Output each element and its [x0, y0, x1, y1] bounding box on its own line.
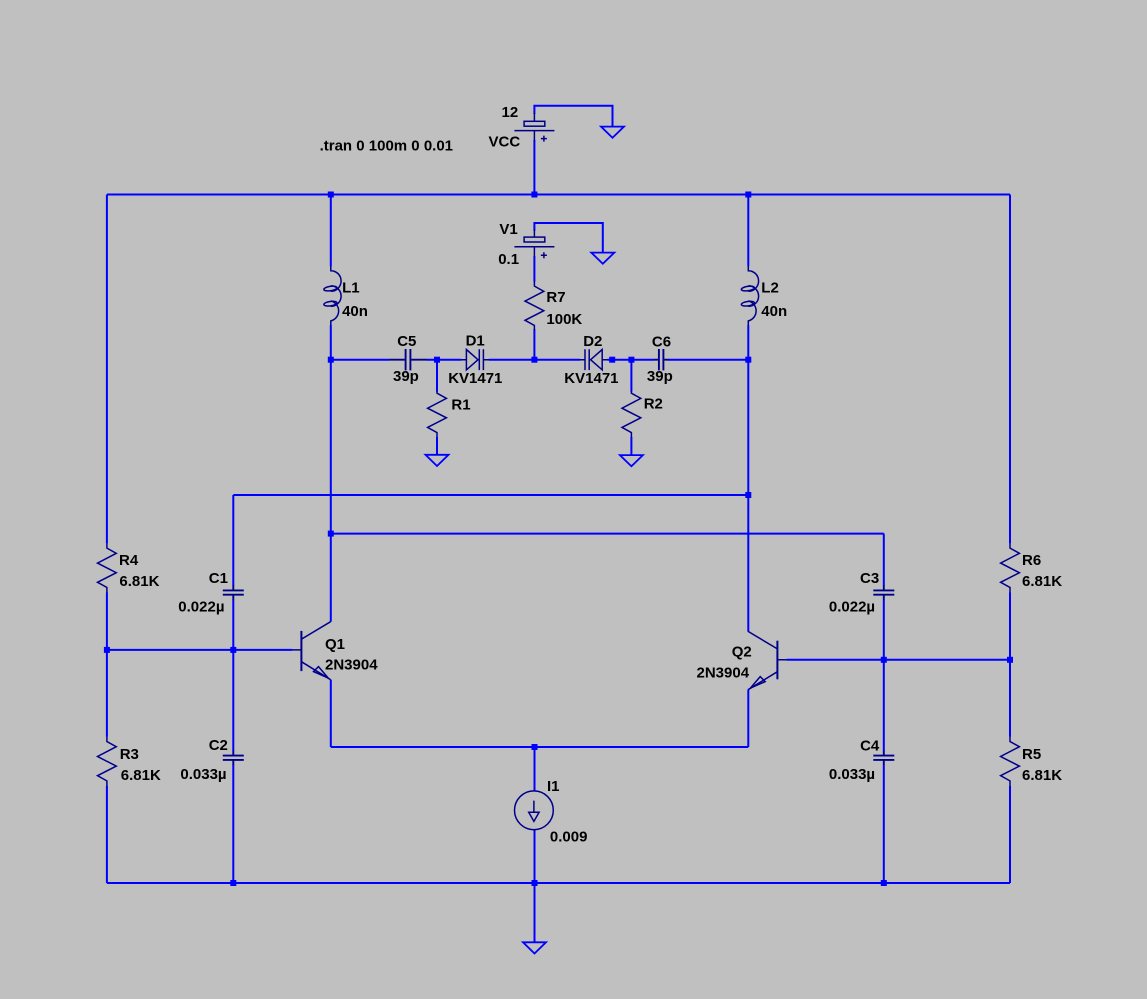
svg-text:C2: C2 [209, 737, 228, 754]
svg-text:6.81K: 6.81K [121, 767, 161, 784]
wire right rail upper (top rail to R6) [1009, 195, 1011, 544]
node C1 wire / Q2 collector [745, 492, 751, 498]
wire C1 cross-coupling horizontal to Q2 collector [233, 494, 748, 496]
inductor L1 body [324, 266, 342, 325]
wire L2 to Q2 collector vertical [747, 325, 749, 631]
resistor R3 body [98, 737, 117, 787]
wire C2 bottom to ground rail [232, 765, 234, 883]
wire Q1 base row from left rail [107, 649, 292, 651]
wire V1 to R7 [533, 256, 535, 282]
svg-text:C4: C4 [860, 738, 880, 755]
svg-text:39p: 39p [393, 368, 419, 385]
wire node L1 to C5 [331, 359, 390, 361]
wire C5 to R1 node to D1 [427, 359, 462, 361]
svg-text:40n: 40n [342, 303, 368, 320]
ground at V1 [591, 253, 614, 264]
svg-text:2N3904: 2N3904 [325, 656, 378, 673]
svg-text:R1: R1 [451, 396, 470, 413]
capacitor C4 body [873, 751, 894, 765]
svg-text:C3: C3 [860, 570, 879, 587]
wire C1 top vertical [232, 495, 234, 586]
wire R1 lower lead to ground [436, 437, 438, 455]
wire left rail upper (top rail to R4) [106, 195, 108, 544]
svg-text:.tran 0 100m 0 0.01: .tran 0 100m 0 0.01 [320, 138, 453, 155]
svg-text:40n: 40n [761, 303, 787, 320]
wire C3 top vertical [883, 534, 885, 586]
wire emitter coupling row [331, 746, 749, 748]
svg-text:VCC: VCC [489, 133, 521, 150]
wire R2 upper lead [630, 360, 632, 392]
ground under R2 [620, 455, 643, 466]
wire L2 branch vertical upper [747, 195, 749, 267]
svg-text:L1: L1 [342, 279, 360, 296]
wire VCC bottom lead to top rail [533, 140, 535, 195]
ground at VCC [601, 127, 624, 138]
resistor R1 body [428, 391, 447, 437]
diode D2 varactor body [580, 349, 608, 370]
wire D1 to R7 node to D2 [489, 359, 580, 361]
resistor R6 body [1001, 543, 1020, 593]
resistor R7 body [525, 281, 544, 330]
svg-text:L2: L2 [761, 279, 779, 296]
node emitter row / I1 [532, 744, 538, 750]
svg-text:0.022µ: 0.022µ [178, 599, 224, 616]
svg-text:0.033µ: 0.033µ [180, 766, 226, 783]
wire left rail middle (R4 to R3, node at Q1 base row) [106, 593, 108, 737]
wire C3 cross-coupling horizontal to Q1 collector [331, 533, 884, 535]
svg-text:I1: I1 [547, 778, 560, 795]
svg-text:Q2: Q2 [732, 644, 752, 661]
wire bottom ground stem [534, 883, 536, 942]
svg-text:R5: R5 [1022, 746, 1041, 763]
capacitor C1 body [223, 585, 244, 599]
node top rail / L1 [328, 192, 334, 198]
wire I1 top lead [534, 747, 536, 791]
wire right rail lower (R5 to bottom rail) [1009, 786, 1011, 883]
svg-text:KV1471: KV1471 [564, 370, 618, 387]
svg-text:C6: C6 [652, 334, 671, 351]
svg-text:0.009: 0.009 [550, 829, 588, 846]
svg-text:D1: D1 [466, 333, 485, 350]
capacitor C3 body [873, 585, 894, 599]
resistor R4 body [98, 543, 117, 593]
wire Q2 base row to right rail [787, 659, 1010, 661]
node bottom rail / C2 [230, 880, 236, 886]
svg-text:R3: R3 [120, 746, 139, 763]
node D2 cathode [609, 357, 615, 363]
node L1 / C5 row [328, 357, 334, 363]
svg-text:6.81K: 6.81K [119, 573, 159, 590]
node bottom rail / ground [532, 880, 538, 886]
node R7 / varactor row [531, 357, 537, 363]
svg-text:R4: R4 [119, 552, 139, 569]
svg-text:39p: 39p [647, 368, 673, 385]
wire L1 to Q1 collector vertical [330, 325, 332, 622]
svg-text:6.81K: 6.81K [1022, 573, 1062, 590]
wire I1 bottom lead [534, 830, 536, 883]
capacitor C2 body [223, 751, 244, 765]
svg-text:Q1: Q1 [325, 636, 345, 653]
inductor L2 body [741, 266, 759, 325]
node C6 / L2 [745, 357, 751, 363]
svg-text:D2: D2 [583, 333, 602, 350]
current source I1 body [515, 791, 554, 830]
node C1-C2 / Q1 base row [230, 647, 236, 653]
node top rail / VCC [531, 192, 537, 198]
wire top supply rail [107, 194, 1010, 196]
wire C1 to C2 vertical through Q1 base node [232, 600, 234, 751]
wire C6 to L2 node [668, 359, 748, 361]
svg-text:100K: 100K [546, 311, 582, 328]
node R2 / C6 [628, 357, 634, 363]
resistor R5 body [1001, 737, 1020, 787]
wire bottom ground rail [107, 882, 1010, 884]
svg-text:0.033µ: 0.033µ [829, 766, 875, 783]
node C3-C4 / Q2 base row [881, 657, 887, 663]
ground under R1 [426, 455, 449, 466]
svg-text:12: 12 [502, 104, 519, 121]
transistor Q2 body [748, 631, 787, 689]
svg-text:C5: C5 [397, 333, 416, 350]
wire right rail middle (R6 to R5) [1009, 593, 1011, 737]
wire C3 to C4 vertical through Q2 base node [883, 600, 885, 751]
wire R2 lower lead to ground [630, 437, 632, 455]
wire C4 bottom to ground rail [883, 765, 885, 883]
wire D2 to R2 node to C6 [607, 359, 654, 361]
svg-text:6.81K: 6.81K [1022, 767, 1062, 784]
svg-text:R2: R2 [644, 396, 663, 413]
svg-text:2N3904: 2N3904 [697, 665, 750, 682]
ground at bottom rail [523, 942, 546, 953]
node right rail / Q2 base row [1007, 657, 1013, 663]
svg-text:R7: R7 [546, 289, 565, 306]
node left rail / Q1 base row [104, 647, 110, 653]
wire R7 to varactor row [533, 329, 535, 360]
node C3 wire / Q1 collector [328, 531, 334, 537]
voltage source V1 battery body [514, 230, 554, 258]
svg-text:C1: C1 [209, 570, 228, 587]
resistor R2 body [622, 391, 641, 437]
wire L1 branch vertical upper [330, 195, 332, 267]
wire Q1 emitter vertical [330, 680, 332, 747]
svg-text:V1: V1 [499, 221, 517, 238]
node top rail / L2 [745, 192, 751, 198]
node C5 / R1 [434, 357, 440, 363]
wire R1 upper lead [436, 360, 438, 392]
diode D1 varactor body [461, 349, 489, 370]
svg-text:R6: R6 [1022, 552, 1041, 569]
wire VCC top lead to ground [534, 106, 612, 127]
svg-text:0.1: 0.1 [498, 251, 519, 268]
wire V1 top lead to ground [534, 223, 602, 253]
voltage source VCC battery body [514, 113, 554, 142]
capacitor C5 body [389, 349, 427, 370]
svg-text:0.022µ: 0.022µ [829, 599, 875, 616]
capacitor C6 body [654, 349, 668, 370]
wire left rail lower (R3 to bottom rail) [106, 786, 108, 883]
node bottom rail / C4 [881, 880, 887, 886]
transistor Q1 body [292, 622, 331, 680]
wire Q2 emitter vertical [747, 690, 749, 747]
svg-text:KV1471: KV1471 [448, 370, 502, 387]
